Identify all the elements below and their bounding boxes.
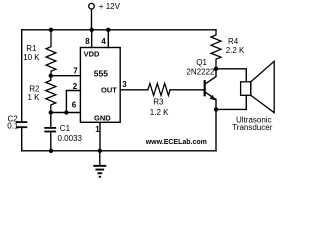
- ground symbol bars: [93, 165, 106, 167]
- junction node: C1 on bottom rail: [49, 149, 53, 153]
- capacitor C1 leads: [50, 113, 52, 128]
- wire: pin 2 (555 left, down to pin6 wire): [66, 91, 80, 113]
- wire: pin 3 OUT to R3: [120, 89, 148, 91]
- svg-text:C1: C1: [60, 124, 71, 133]
- svg-text:2N2222: 2N2222: [186, 68, 215, 77]
- svg-text:555: 555: [94, 68, 108, 78]
- svg-text:R4: R4: [228, 37, 239, 46]
- wire: pin 4: [107, 30, 109, 48]
- wire: pin 1 GND to bottom rail: [99, 122, 101, 151]
- junction node: pin2 drop on pin6 wire: [64, 110, 68, 114]
- svg-text:0.1: 0.1: [7, 122, 19, 131]
- junction node: pin 4 on rail: [106, 28, 110, 32]
- svg-text:8: 8: [85, 37, 90, 46]
- wire: pin 7 (R1/R2 node to 555): [51, 75, 81, 77]
- svg-text:7: 7: [73, 67, 78, 76]
- capacitor C2 plates: [17, 121, 26, 123]
- resistor R1: [46, 30, 56, 76]
- power terminal +12V circle: [89, 3, 95, 9]
- wire: left rail upper (to C2): [21, 30, 23, 122]
- svg-text:www.ECELab.com: www.ECELab.com: [145, 139, 207, 146]
- svg-text:1 K: 1 K: [28, 93, 41, 102]
- wire: collector node to transducer top: [216, 69, 246, 82]
- capacitor C1 plates: [45, 127, 55, 129]
- svg-text:4: 4: [101, 37, 106, 46]
- svg-text:Q1: Q1: [196, 58, 207, 67]
- svg-text:6: 6: [72, 100, 77, 109]
- junction node: +12V / pin 8 on rail: [90, 28, 94, 32]
- junction node: R1/R2/pin7: [49, 74, 53, 78]
- wire: left rail lower (C2 to bottom rail): [21, 128, 23, 151]
- wire: +12V terminal to top rail: [91, 9, 93, 30]
- wire: R3 to Q1 base: [170, 89, 205, 91]
- transistor Q1 emitter: [205, 92, 216, 100]
- transistor Q1 emitter arrowhead: [210, 95, 216, 101]
- resistor R3: [148, 83, 170, 95]
- transistor Q1 collector: [205, 69, 216, 85]
- wire: top rail: [22, 29, 216, 31]
- wire: emitter node down to bottom rail: [215, 109, 217, 150]
- junction node: R1 top on rail: [49, 28, 53, 32]
- svg-text:2.2 K: 2.2 K: [226, 46, 245, 55]
- svg-text:10 K: 10 K: [23, 53, 40, 62]
- svg-text:1: 1: [95, 125, 100, 134]
- junction node: pin1/ground on bottom rail: [98, 149, 102, 153]
- svg-text:OUT: OUT: [101, 86, 117, 95]
- svg-text:2: 2: [73, 82, 78, 91]
- transducer LS1 horn: [251, 61, 274, 112]
- junction node: R2/C1/pin6: [49, 110, 53, 114]
- transistor Q1 base bar: [204, 81, 206, 95]
- svg-text:Transducer: Transducer: [232, 123, 273, 132]
- svg-text:0.0033: 0.0033: [58, 134, 83, 143]
- svg-text:GND: GND: [94, 114, 111, 123]
- resistor R2: [46, 76, 56, 113]
- svg-text:1.2 K: 1.2 K: [150, 108, 169, 117]
- svg-text:R3: R3: [153, 98, 164, 107]
- ground symbol stub: [99, 151, 101, 165]
- junction node: R4/collector/transducer: [214, 67, 218, 71]
- svg-text:3: 3: [122, 80, 127, 89]
- IC U1 555 box: [80, 48, 120, 123]
- wire: transducer bottom to emitter node: [216, 95, 246, 109]
- wire: pin 8: [91, 30, 93, 48]
- svg-text:+ 12V: + 12V: [99, 2, 121, 11]
- resistor R4: [211, 30, 221, 69]
- wire: pin 6 (R2/C1 node to 555): [51, 112, 81, 114]
- wire: bottom rail: [22, 150, 216, 152]
- transducer LS1 box: [241, 82, 251, 96]
- junction node: emitter/transducer: [214, 107, 218, 111]
- svg-text:VDD: VDD: [84, 50, 100, 59]
